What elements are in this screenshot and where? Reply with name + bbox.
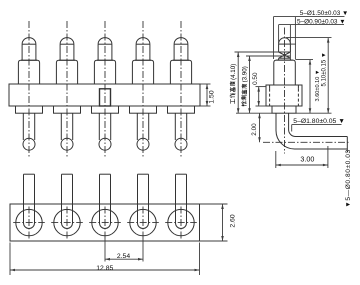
svg-text:1.50: 1.50 [208, 90, 215, 103]
svg-text:▼5—Ø0.80±0.03: ▼5—Ø0.80±0.03 [345, 149, 352, 207]
svg-text:5–Ø1.50±0.03 ▼: 5–Ø1.50±0.03 ▼ [300, 10, 349, 17]
svg-text:3.00: 3.00 [300, 155, 314, 164]
svg-text:0.50: 0.50 [252, 72, 259, 85]
svg-text:(4.10): (4.10) [230, 64, 237, 80]
svg-text:12.85: 12.85 [96, 265, 113, 272]
svg-text:5–Ø1.80±0.05 ▼: 5–Ø1.80±0.05 ▼ [293, 118, 345, 125]
svg-text:5.10±0.15 ▼: 5.10±0.15 ▼ [322, 52, 328, 86]
svg-text:2.54: 2.54 [117, 253, 130, 260]
svg-text:2.00: 2.00 [251, 123, 258, 136]
svg-text:(3.90): (3.90) [242, 66, 249, 82]
svg-text:2.60: 2.60 [229, 214, 236, 227]
svg-text:3.60±0.10 ▼: 3.60±0.10 ▼ [315, 70, 321, 102]
svg-text:5–Ø0.90±0.03 ▼: 5–Ø0.90±0.03 ▼ [297, 18, 346, 25]
